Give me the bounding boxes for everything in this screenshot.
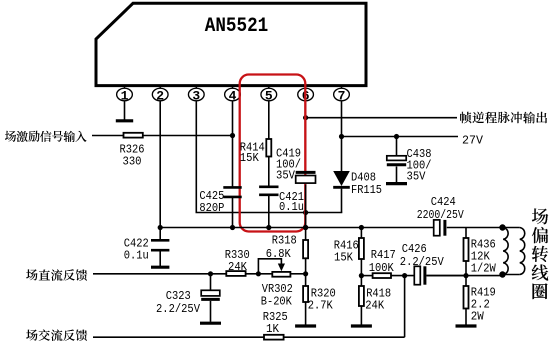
capacitor C426 (electrolytic)	[414, 266, 420, 284]
capacitor C422	[151, 239, 169, 242]
wire C323-gnd	[210, 301, 212, 322]
wire R318-node	[305, 258, 307, 274]
wire AC feedback right	[284, 336, 405, 338]
label 场交流反馈	[26, 329, 87, 341]
svg-text:2200/25V: 2200/25V	[417, 208, 465, 222]
svg-text:FR115: FR115	[351, 183, 382, 197]
junction VR302/R318	[303, 271, 308, 276]
svg-text:35V: 35V	[276, 169, 296, 183]
wire R417-C426	[391, 275, 414, 277]
resistor R330	[226, 271, 245, 276]
resistor R417	[373, 273, 391, 278]
junction R416/R417	[359, 273, 364, 278]
wire VR302-R318	[290, 273, 305, 275]
ground R418	[351, 324, 372, 327]
wire 27V-D408	[341, 137, 343, 172]
wire R320-gnd	[305, 302, 307, 325]
wire R436-node	[465, 261, 467, 276]
wire R418-gnd	[360, 306, 362, 325]
ground C438	[386, 182, 407, 185]
coil L winding 1	[503, 228, 508, 275]
wire pin2 down to bus	[159, 101, 161, 228]
capacitor C323 (electrolytic)	[201, 290, 220, 296]
svg-text:B-20K: B-20K	[261, 295, 293, 309]
svg-text:AN5521: AN5521	[205, 15, 269, 38]
resistor R416	[359, 238, 364, 259]
pin 4 circle	[225, 88, 241, 101]
wire pin3 down	[195, 101, 197, 213]
pin 2 circle	[152, 88, 168, 101]
wire R414-C421	[268, 157, 270, 187]
resistor R326	[124, 133, 143, 138]
wire 27V-C438	[396, 137, 398, 157]
capacitor C438 (electrolytic)	[387, 156, 406, 161]
highlight box (red)	[240, 75, 306, 232]
pin 7 circle	[334, 88, 350, 101]
junction C421/bus	[266, 225, 271, 230]
wire C422-gnd	[159, 250, 161, 266]
resistor R325	[264, 335, 284, 340]
resistor R320	[303, 286, 308, 302]
wire R419-gnd	[465, 309, 467, 325]
resistor R436	[464, 238, 469, 261]
wire DC-C323	[210, 274, 212, 291]
junction net3/pin6	[303, 210, 308, 215]
wire 27V line	[342, 136, 459, 138]
junction 27V/C438	[394, 134, 399, 139]
wire bus-R318	[305, 228, 307, 241]
wire AC-up	[404, 276, 406, 338]
svg-text:100K: 100K	[369, 261, 395, 275]
svg-text:24K: 24K	[228, 260, 248, 274]
wire AC feedback left	[93, 336, 264, 338]
svg-text:C424: C424	[431, 195, 456, 209]
potentiometer VR302 body	[272, 272, 290, 277]
wire R330-VR302	[246, 273, 273, 275]
wire retrace output	[306, 117, 457, 119]
wire pin4 down	[232, 101, 234, 188]
capacitor C419 (electrolytic)	[296, 171, 316, 174]
svg-text:0.1u: 0.1u	[124, 249, 149, 263]
pin 3 circle	[188, 88, 204, 101]
wire input right	[143, 135, 233, 137]
ground R419	[456, 324, 477, 327]
wire pin7 down	[341, 101, 343, 137]
resistor R419	[464, 286, 469, 309]
pin 1 stub	[124, 87, 126, 89]
pin 7 stub	[341, 87, 343, 89]
wire bus right	[447, 227, 503, 229]
ground C422	[151, 266, 169, 269]
resistor R318	[303, 240, 308, 258]
junction C425/bus	[230, 225, 235, 230]
wire pin5 down	[268, 101, 270, 140]
svg-text:27V: 27V	[462, 134, 484, 148]
wire D408-net3	[341, 189, 343, 213]
wire lower line	[426, 275, 502, 277]
junction pin6/bus	[303, 225, 308, 230]
pin 6 stub	[305, 87, 307, 89]
wire C438-gnd	[396, 167, 398, 183]
svg-text:24K: 24K	[365, 299, 385, 313]
wire C421-bus	[268, 195, 270, 228]
pin 2 stub	[159, 87, 161, 89]
junction R417/AC	[402, 273, 407, 278]
svg-text:35V: 35V	[407, 169, 427, 183]
junction pin6/output	[303, 115, 308, 120]
svg-text:1K: 1K	[266, 322, 280, 336]
svg-text:330: 330	[123, 155, 142, 169]
junction bus/R318	[303, 225, 308, 230]
label 场偏转线圈 (vertical)	[532, 208, 549, 299]
svg-text:2.2/25V: 2.2/25V	[156, 302, 201, 316]
svg-text:15K: 15K	[240, 151, 260, 165]
wire node-R417	[361, 275, 372, 277]
wire C419-net3	[305, 185, 307, 228]
svg-text:1/2W: 1/2W	[471, 261, 497, 275]
junction 27V/D408	[339, 134, 344, 139]
ground R320	[295, 324, 316, 327]
wire pin1 down	[124, 101, 126, 120]
pin 5 stub	[268, 87, 270, 89]
svg-text:0.1u: 0.1u	[279, 200, 304, 214]
wire node-R320	[305, 274, 307, 286]
diode D408	[333, 171, 350, 186]
pin 5 circle	[261, 88, 277, 101]
wire R416-node	[360, 259, 362, 276]
wire bus left	[159, 227, 433, 229]
wire pin6 down	[305, 101, 307, 173]
svg-text:820P: 820P	[199, 201, 224, 215]
pin 3 stub	[195, 87, 197, 89]
svg-text:C426: C426	[402, 242, 427, 256]
junction wiper/left	[256, 271, 261, 276]
junction pin4/input	[230, 133, 235, 138]
wire coil bottom	[503, 274, 520, 276]
coil L winding 2	[520, 228, 525, 275]
wire DC feedback	[93, 273, 226, 275]
capacitor C421	[259, 186, 278, 189]
svg-text:2.7K: 2.7K	[308, 299, 334, 313]
label 场直流反馈	[26, 269, 87, 281]
wire bus-C422	[159, 228, 161, 240]
wire bus-R436	[465, 228, 467, 239]
VR302 wiper arm	[258, 259, 281, 274]
pin 4 stub	[232, 87, 234, 89]
pin 1 circle	[117, 88, 133, 101]
svg-text:R318: R318	[272, 234, 297, 248]
svg-text:15K: 15K	[334, 251, 354, 265]
junction bus/R416	[359, 225, 364, 230]
junction DC/C323	[208, 271, 213, 276]
IC U1 AN5521 body	[96, 3, 366, 85]
junction R436/line	[463, 273, 468, 278]
wire bus-R416	[360, 228, 362, 239]
pin 6 circle	[298, 88, 314, 101]
svg-text:C323: C323	[166, 289, 191, 303]
capacitor C424 (electrolytic)	[434, 220, 440, 236]
junction coil bottom	[499, 271, 505, 277]
junction bus/coil top	[499, 224, 505, 230]
ground C323	[200, 322, 221, 325]
wire coil top	[503, 227, 520, 229]
wire R419 top	[465, 276, 467, 286]
svg-text:2W: 2W	[471, 309, 485, 323]
wire C426-R436	[426, 275, 466, 277]
label output 帧逆程脉冲输出	[460, 112, 547, 124]
label input 场激励信号输入	[5, 131, 87, 142]
junction pin2/bus	[158, 225, 163, 230]
resistor R414	[266, 139, 271, 157]
wire C425-bus	[232, 197, 234, 228]
svg-text:6.8K: 6.8K	[266, 247, 292, 261]
wire input left	[92, 135, 124, 137]
resistor R418	[359, 286, 364, 306]
wire R418 top	[360, 276, 362, 286]
capacitor C425	[223, 186, 241, 189]
wire net3 horizontal	[196, 212, 343, 214]
svg-text:2.2/25V: 2.2/25V	[400, 255, 445, 269]
ground pin1	[116, 119, 133, 122]
